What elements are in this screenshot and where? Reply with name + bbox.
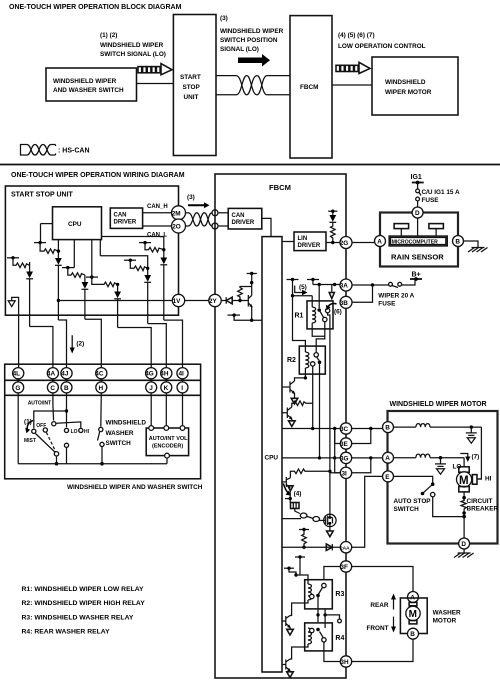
- box FBCM (block diagram): [290, 16, 332, 158]
- wire R1 moving contact down to R2: [316, 322, 325, 353]
- wire R1 fixed contact down: [328, 313, 330, 472]
- svg-text:: HS-CAN: : HS-CAN: [58, 148, 90, 155]
- wire FBCM to wiper motor: [332, 84, 372, 86]
- curved arrow (1): [27, 421, 33, 431]
- svg-text:LO: LO: [71, 429, 78, 435]
- box windshield wiper motor (block diagram): [372, 57, 458, 115]
- connector C: [47, 382, 58, 393]
- wire R2 NC contact down to 3C wire: [312, 366, 314, 428]
- pull-up cell 6 (to 4H): [100, 240, 151, 324]
- contact LO: [64, 428, 68, 432]
- svg-text:B: B: [455, 239, 460, 246]
- separator line: [0, 164, 500, 166]
- wire CAN driver to 2M: [143, 212, 172, 214]
- svg-text:WINDSHIELD WIPER MOTOR: WINDSHIELD WIPER MOTOR: [390, 401, 487, 408]
- CPU U-cpu (start stop unit): [53, 207, 102, 240]
- svg-text:HI: HI: [84, 429, 90, 435]
- svg-text:CAN_H: CAN_H: [147, 204, 168, 210]
- svg-text:2AA: 2AA: [340, 545, 350, 551]
- supply stub above 2AA resistor: [299, 529, 309, 531]
- wires R3 contacts down: [317, 596, 319, 623]
- coil B (wiper motor): [394, 426, 416, 428]
- svg-text:2M: 2M: [172, 210, 181, 217]
- wire CPU to LIN driver: [282, 241, 294, 243]
- diode after 2Y: [221, 297, 248, 304]
- svg-text:4L: 4L: [13, 371, 21, 378]
- svg-text:2Y: 2Y: [209, 298, 218, 305]
- transistor Q-R2: [282, 381, 295, 393]
- supply stub R3: [295, 556, 305, 558]
- washer motor M: [409, 602, 417, 605]
- resistor vertical to 2AA wire: [302, 530, 307, 548]
- wire B coil to HI brush: [478, 427, 482, 479]
- R4 contact: [310, 628, 314, 632]
- svg-text:CPU: CPU: [68, 221, 82, 228]
- svg-text:WIPER 20 A: WIPER 20 A: [378, 293, 414, 300]
- wiper arm solid MIST: [36, 434, 56, 453]
- svg-text:A: A: [377, 239, 382, 246]
- svg-text:AUTO STOP: AUTO STOP: [394, 498, 432, 505]
- svg-text:3A: 3A: [340, 283, 349, 290]
- svg-text:1V: 1V: [173, 298, 182, 305]
- box windshield wiper and washer switch: [46, 68, 137, 101]
- wire 3B bypass to 3A wire: [352, 285, 373, 302]
- oval component 2: [313, 517, 320, 522]
- connector G: [13, 382, 24, 393]
- wire breaker to D: [463, 517, 465, 539]
- earth ground rain sensor: [468, 248, 488, 253]
- svg-text:FBCM: FBCM: [269, 183, 291, 192]
- R1 contact: [317, 308, 321, 312]
- wire 3G to A with bypass to 3I: [352, 457, 383, 459]
- chassis ground A coil: [435, 458, 446, 475]
- washer switch contacts: [100, 393, 103, 427]
- svg-text:WINDSHIELD WIPER: WINDSHIELD WIPER: [100, 42, 164, 49]
- relay R4: [305, 623, 333, 651]
- curved arrow (4): [283, 484, 289, 495]
- sensor element right: [429, 224, 444, 229]
- wire 1V to 2Y: [185, 300, 209, 302]
- svg-text:(4) (5) (6) (7): (4) (5) (6) (7): [338, 32, 375, 39]
- svg-text:3H: 3H: [340, 659, 349, 666]
- wires J K I to encoder: [150, 393, 152, 426]
- resistor vertical at 2Y circuit: [238, 287, 252, 301]
- wire 3F to washer A: [352, 567, 413, 592]
- connector 4G: [146, 368, 157, 379]
- power stub IG1: [412, 182, 424, 184]
- supply stub R4: [284, 567, 294, 569]
- encoder ground pin: [165, 453, 170, 458]
- connector 4J: [61, 368, 72, 379]
- svg-text:SWITCH: SWITCH: [394, 506, 420, 513]
- supply stub lower 2Y circuit: [228, 314, 241, 316]
- svg-text:MICROCOMPUTER: MICROCOMPUTER: [392, 239, 438, 245]
- svg-text:MIST: MIST: [24, 438, 36, 444]
- connector 4I: [177, 368, 188, 379]
- svg-text:R1: WINDSHIELD WIPER LOW RELAY: R1: WINDSHIELD WIPER LOW RELAY: [22, 586, 145, 593]
- connector 4H: [161, 368, 172, 379]
- box START STOP UNIT: [5, 186, 178, 315]
- svg-text:R2: R2: [287, 357, 296, 364]
- connector 3A: [340, 279, 352, 291]
- junction (5) wire: [291, 294, 294, 297]
- R4 coil: [308, 628, 311, 644]
- box windshield wiper motor: [388, 411, 498, 544]
- wire stub to R1 coil: [293, 295, 313, 297]
- svg-text:CPU: CPU: [265, 455, 279, 462]
- transistor Q-2Y: [248, 295, 251, 320]
- wire 1V horizontal: [58, 300, 172, 302]
- box washer motor: [400, 598, 427, 634]
- svg-text:(1) (2): (1) (2): [100, 32, 117, 39]
- contact MIST: [32, 429, 36, 433]
- relay R3: [305, 580, 333, 609]
- arrow (7): [460, 454, 468, 458]
- wire 3A to R1: [313, 284, 340, 286]
- connector 2AA: [340, 542, 351, 553]
- svg-text:3I: 3I: [342, 470, 348, 477]
- svg-text:I: I: [181, 385, 183, 392]
- connector 2G: [340, 237, 352, 249]
- R3 contact: [322, 583, 326, 587]
- svg-text:R1: R1: [295, 313, 304, 320]
- LIN DRIVER: [294, 232, 326, 251]
- svg-text:3F: 3F: [340, 564, 348, 571]
- junction 1V wire: [57, 299, 60, 302]
- connector K: [161, 382, 172, 393]
- svg-text:C: C: [50, 385, 55, 392]
- svg-text:WINDSHIELD WIPER: WINDSHIELD WIPER: [220, 28, 284, 35]
- oval component 1: [300, 513, 307, 518]
- pull-up cell 4 (to 4G): [86, 240, 121, 328]
- connector 4A: [47, 368, 58, 379]
- svg-text:START STOP UNIT: START STOP UNIT: [11, 192, 74, 199]
- ground FET: [329, 527, 331, 531]
- pull-up cell 1 (to 4A): [7, 256, 33, 326]
- wire R2 moving contact down to 3G wire: [319, 362, 321, 458]
- svg-text:R2: WINDSHIELD WIPER HIGH RELA: R2: WINDSHIELD WIPER HIGH RELAY: [22, 600, 146, 607]
- HS-CAN legend symbol: [21, 145, 56, 156]
- svg-text:STOP: STOP: [183, 84, 201, 91]
- R2 coil bottom to Q-R2 collector: [295, 378, 306, 381]
- R2 contact: [314, 353, 318, 357]
- connector D motor: [459, 538, 470, 549]
- svg-text:4H: 4H: [160, 371, 169, 378]
- svg-text:ONE-TOUCH WIPER OPERATION WIRI: ONE-TOUCH WIPER OPERATION WIRING DIAGRAM: [11, 172, 185, 179]
- contact AUTO/INT: [52, 422, 56, 426]
- pull-up cell 5 (to 4I): [102, 237, 168, 321]
- connector B motor: [383, 422, 394, 433]
- svg-text:START: START: [180, 74, 201, 81]
- svg-text:FRONT: FRONT: [367, 625, 389, 632]
- R2 coil: [305, 352, 308, 368]
- svg-text:(3): (3): [220, 15, 228, 22]
- svg-text:J: J: [149, 385, 153, 392]
- svg-text:R4: R4: [335, 635, 344, 642]
- connector 3G: [340, 452, 351, 463]
- connector 3H: [340, 656, 351, 667]
- wire CAN driver to CPU (FBCM): [262, 218, 271, 236]
- wire CPU to opto chain: [282, 518, 301, 520]
- circuit breaker: [463, 492, 465, 498]
- wires FBCM edge pins to CAN driver: [218, 212, 228, 214]
- wire CPU to 2AA with diode: [282, 546, 340, 548]
- pin link lines: [18, 379, 182, 382]
- connector strip divider lines: [5, 379, 201, 381]
- svg-text:2G: 2G: [340, 240, 349, 247]
- connector 3I: [340, 467, 351, 478]
- power stub B+: [410, 278, 422, 280]
- svg-text:HI: HI: [485, 475, 492, 482]
- transistor Q-R4: [282, 659, 290, 671]
- svg-text:AND WASHER SWITCH: AND WASHER SWITCH: [53, 87, 124, 94]
- svg-text:WASHER: WASHER: [106, 430, 134, 437]
- R3 coil: [308, 584, 311, 600]
- common contact wiper: [54, 452, 58, 456]
- encoder box AUTO/INT VOL: [146, 428, 188, 456]
- connector 3F: [340, 561, 351, 572]
- svg-text:WINDSHIELD: WINDSHIELD: [385, 79, 426, 86]
- moving contact LO/HI: [64, 443, 68, 447]
- wire switch box to start stop unit: [137, 83, 174, 85]
- svg-text:(ENCODER): (ENCODER): [152, 444, 183, 450]
- earth ground D: [454, 549, 474, 558]
- svg-text:(4): (4): [294, 491, 302, 498]
- svg-text:(2): (2): [76, 341, 84, 348]
- supply stub 3A: [307, 279, 319, 281]
- svg-text:AUTO/INT VOL: AUTO/INT VOL: [149, 436, 188, 442]
- twisted pair start stop unit to FBCM: [216, 76, 290, 95]
- svg-text:LIN: LIN: [298, 236, 308, 242]
- link 3C-3G wires: [334, 429, 336, 458]
- relay R2: [299, 346, 325, 374]
- connector 3C: [340, 423, 351, 434]
- FET in circle: [329, 473, 331, 515]
- wire B down with junction: [66, 393, 68, 427]
- wire A coil to LO brush: [463, 458, 465, 467]
- wire D to microcomputer: [417, 218, 419, 236]
- contact HI: [79, 428, 83, 432]
- wire C to auto/int contact: [52, 393, 55, 421]
- svg-text:M: M: [459, 475, 469, 487]
- solid arrow (3): [238, 54, 270, 67]
- svg-text:WINDSHIELD: WINDSHIELD: [106, 420, 147, 427]
- coil A (wiper motor): [394, 457, 416, 459]
- fuse C/U IG1 15A: [416, 189, 420, 193]
- svg-text:LOW OPERATION CONTROL: LOW OPERATION CONTROL: [338, 43, 426, 50]
- svg-text:4C: 4C: [95, 371, 104, 378]
- transistor Q2-R2 with resistor: [282, 407, 292, 419]
- wire emitter down: [289, 491, 291, 503]
- wire B junction to MIST contact: [34, 411, 67, 428]
- svg-text:MOTOR: MOTOR: [433, 618, 457, 625]
- wire B to ground: [464, 241, 479, 248]
- svg-text:K: K: [164, 385, 169, 392]
- wire 3I to resistor and transistor (4): [330, 472, 340, 474]
- connector I: [177, 382, 188, 393]
- svg-text:DRIVER: DRIVER: [232, 220, 255, 226]
- ground (start stop unit): [8, 297, 18, 368]
- box start stop unit: [173, 15, 216, 156]
- striped block arrow (4-7): [336, 62, 370, 73]
- svg-text:WIPER MOTOR: WIPER MOTOR: [385, 89, 432, 96]
- svg-text:REAR: REAR: [370, 602, 388, 609]
- sensor element left: [394, 224, 409, 229]
- motor M (wiper): [459, 467, 469, 472]
- CPU box (FBCM): [262, 237, 282, 672]
- switch common bus: [18, 463, 167, 465]
- svg-text:(7): (7): [472, 454, 480, 461]
- svg-text:UNIT: UNIT: [184, 94, 199, 101]
- wire CAN driver to 2O: [143, 225, 172, 227]
- svg-text:4A: 4A: [47, 371, 56, 378]
- connector A washer: [408, 592, 419, 603]
- svg-text:WINDSHIELD WIPER: WINDSHIELD WIPER: [53, 78, 117, 85]
- wire cell3 to 4C: [85, 319, 101, 368]
- connector B washer: [408, 628, 419, 639]
- svg-text:WASHER: WASHER: [433, 610, 461, 617]
- bypass 3G to 3I left: [335, 458, 341, 473]
- wire R4 contact down to 3H: [324, 642, 340, 662]
- striped block arrow (1)(2): [138, 64, 172, 75]
- contact OFF: [43, 428, 47, 432]
- CAN DRIVER (FBCM): [228, 208, 262, 229]
- wire cell5 to 4I: [164, 320, 183, 368]
- arrow (2) annotation: [70, 335, 75, 353]
- connector B: [61, 382, 72, 393]
- svg-text:SWITCH POSITION: SWITCH POSITION: [220, 37, 278, 44]
- svg-text:G: G: [15, 385, 20, 392]
- svg-text:SWITCH: SWITCH: [106, 440, 132, 447]
- connector J: [146, 382, 157, 393]
- svg-text:R4: REAR WASHER RELAY: R4: REAR WASHER RELAY: [22, 629, 111, 636]
- svg-text:B: B: [410, 631, 415, 638]
- svg-text:DRIVER: DRIVER: [114, 220, 137, 226]
- ground Q-R2: [294, 393, 296, 398]
- svg-text:RAIN SENSOR: RAIN SENSOR: [391, 253, 444, 262]
- curved arrow (6): [328, 303, 337, 307]
- svg-text:4G: 4G: [145, 371, 154, 378]
- svg-text:CAN: CAN: [232, 213, 245, 219]
- svg-text:BREAKER: BREAKER: [467, 506, 499, 513]
- pull-up diode resistor at 2G: [328, 210, 337, 245]
- svg-text:M: M: [409, 609, 417, 620]
- pull-up cell 3 (to 4C): [62, 240, 88, 319]
- svg-text:3B: 3B: [340, 300, 349, 307]
- wire 3C to B with bypass to 3E: [352, 428, 383, 430]
- relay R1: [307, 301, 333, 329]
- svg-text:ONE-TOUCH WIPER OPERATION BLOC: ONE-TOUCH WIPER OPERATION BLOCK DIAGRAM: [9, 4, 182, 11]
- connector 2Y: [209, 294, 221, 306]
- svg-text:B: B: [64, 385, 69, 392]
- svg-text:2O: 2O: [172, 224, 181, 231]
- svg-text:FUSE: FUSE: [422, 197, 440, 204]
- svg-text:AUTO/INT: AUTO/INT: [28, 401, 52, 407]
- connector 2O: [172, 219, 186, 233]
- transistor Q-(4): [282, 477, 290, 488]
- svg-text:IG1: IG1: [411, 174, 422, 181]
- svg-text:OFF: OFF: [36, 423, 46, 429]
- connector 4L: [13, 368, 24, 379]
- bypass 3C to 3E left: [335, 429, 341, 444]
- svg-text:3E: 3E: [340, 441, 349, 448]
- box RAIN SENSOR: [380, 213, 458, 267]
- wire 2G to A: [352, 242, 375, 244]
- wire contact A to HI: [56, 422, 80, 428]
- pin circle on FBCM edge CAN_H: [212, 210, 218, 216]
- svg-text:A: A: [385, 455, 390, 462]
- emitter arrow hollow: [288, 486, 293, 491]
- svg-text:FBCM: FBCM: [300, 84, 318, 91]
- svg-text:4J: 4J: [61, 371, 69, 378]
- pin circle on FBCM edge CAN_L: [212, 223, 218, 229]
- supply stub (5): [287, 279, 299, 281]
- svg-text:3G: 3G: [340, 455, 349, 462]
- svg-text:(6): (6): [334, 309, 342, 316]
- wire washer B to 3H: [352, 639, 413, 661]
- wire cell1 to 4A: [30, 327, 53, 369]
- component small box (thermal): [291, 503, 300, 509]
- connector D rain sensor: [412, 207, 423, 218]
- svg-text:3C: 3C: [340, 426, 349, 433]
- svg-text:SWITCH SIGNAL (LO): SWITCH SIGNAL (LO): [100, 51, 166, 58]
- connector E motor: [383, 471, 394, 482]
- arrow (3) wiring: [188, 202, 210, 208]
- svg-text:FUSE: FUSE: [378, 301, 396, 308]
- connector A motor: [383, 452, 394, 463]
- moving contact indicator: [325, 615, 339, 619]
- wire R1 coil bottom: [312, 329, 325, 336]
- wire 3A to fuse to B+: [352, 284, 389, 286]
- wire 3F to R3: [324, 567, 340, 581]
- box FBCM wiring: [215, 174, 346, 678]
- svg-text:CAN: CAN: [114, 213, 127, 219]
- connector A rain sensor: [375, 236, 386, 247]
- svg-text:DRIVER: DRIVER: [298, 243, 321, 249]
- wire stub down to R2 coil: [293, 296, 306, 352]
- svg-text:(5): (5): [299, 284, 307, 291]
- auto stop switch: [394, 476, 433, 482]
- svg-text:WINDSHIELD WIPER AND WASHER SW: WINDSHIELD WIPER AND WASHER SWITCH: [67, 484, 203, 491]
- wire cell2 to 4J: [58, 320, 66, 368]
- connector H: [96, 382, 107, 393]
- svg-text:C/U IG1 15 A: C/U IG1 15 A: [422, 189, 461, 196]
- svg-text:(3): (3): [187, 194, 195, 201]
- wire LIN driver to 2G: [326, 242, 340, 244]
- arrow (5): [295, 286, 303, 293]
- svg-text:D: D: [415, 210, 420, 217]
- wiper arm dashed: [46, 432, 55, 451]
- REAR arrow: [393, 598, 395, 610]
- wire CPU to 3G: [282, 457, 340, 459]
- pull-up cell 2 (1V/4J line): [34, 224, 62, 320]
- chassis ground B coil: [466, 427, 477, 443]
- wire cell4 to 4G: [118, 328, 152, 369]
- wire CPU to 3C: [282, 428, 341, 430]
- svg-text:R3: R3: [335, 591, 344, 598]
- wire E to 2AA: [352, 476, 383, 547]
- svg-text:CIRCUIT: CIRCUIT: [467, 498, 493, 505]
- svg-text:E: E: [385, 474, 390, 481]
- connector B rain sensor: [453, 236, 464, 247]
- switch assembly outer box: [5, 364, 201, 479]
- connector 2M: [172, 206, 186, 220]
- twisted pair 2M/2O to FBCM: [186, 213, 213, 226]
- supply stub 2Y circuit: [247, 273, 257, 275]
- CAN DRIVER (start stop unit): [110, 208, 142, 228]
- wire cell6 to 4H: [148, 324, 167, 369]
- R1 coil: [312, 307, 315, 323]
